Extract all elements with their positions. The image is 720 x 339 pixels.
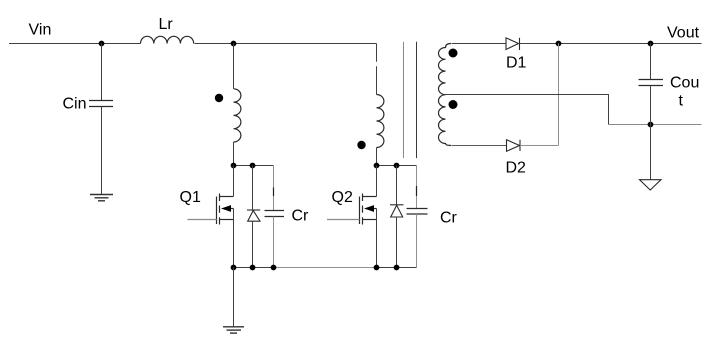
phase dot secondary top	[449, 49, 458, 58]
wire Q2 drain vertical	[376, 166, 378, 197]
arrow of Q2 body	[364, 205, 374, 212]
transistor Q2 (MOSFET)	[360, 194, 377, 225]
node junction Vin/Cin	[99, 41, 105, 47]
wire bottom rail	[234, 267, 274, 269]
node junction Cout bottom	[648, 122, 654, 128]
phase dot secondary bottom half	[449, 100, 458, 109]
transformer core line left	[403, 42, 405, 158]
node junction body diode 2 top	[394, 163, 400, 169]
body stub	[227, 208, 234, 210]
phase dot primary P2	[357, 141, 365, 149]
transistor Q1 (MOSFET)	[217, 194, 234, 225]
svg-text:Vout: Vout	[667, 25, 700, 42]
svg-text:Cr: Cr	[440, 210, 458, 227]
source stub	[220, 219, 234, 221]
transformer core line right	[416, 42, 418, 158]
capacitor Cout	[650, 44, 652, 80]
wire secondary bottom to D2	[452, 145, 507, 147]
wire primary P1 bottom	[233, 142, 235, 166]
transformer primary winding P1	[234, 89, 241, 142]
phase dot primary P1	[215, 94, 223, 102]
wire Q1 cell top rail	[234, 165, 274, 167]
svg-text:Q2: Q2	[332, 189, 353, 206]
svg-text:t: t	[679, 93, 684, 110]
wire D1/D2 junction down to D2 (gray)	[558, 44, 560, 146]
diode body D-Q2	[396, 166, 398, 205]
node junction Q2 drain	[374, 163, 380, 169]
wire output bottom rail	[609, 124, 702, 126]
wire Q1 source vertical	[233, 209, 235, 268]
diode D2	[507, 140, 521, 152]
wire Vin input top rail	[9, 43, 377, 45]
wire ground stem Q1	[233, 268, 235, 327]
node junction body diode 1 top	[250, 163, 256, 169]
gate bar	[359, 197, 361, 225]
ground earth below Q1	[223, 327, 244, 333]
node junction Q1 drain	[231, 163, 237, 169]
wire Cin top	[101, 44, 103, 101]
ground triangle output	[640, 180, 662, 190]
node junction top-left of transformer	[231, 41, 237, 47]
diode D1	[506, 38, 520, 50]
capacitor Cin	[89, 101, 113, 107]
wire center tap	[446, 95, 609, 125]
transformer secondary winding (center tapped)	[438, 44, 451, 146]
capacitor Cr1	[273, 166, 275, 211]
channel dashes	[219, 194, 221, 225]
wire Cin bottom	[101, 107, 103, 195]
svg-text:Cr: Cr	[292, 208, 310, 225]
wire Q2 gate lead	[327, 219, 360, 221]
transformer primary winding P2	[377, 95, 384, 148]
wire Q1 drain vertical	[233, 166, 235, 197]
source stub	[363, 219, 377, 221]
inductor Lr	[141, 36, 194, 43]
node junction bottom Q1 source	[231, 265, 237, 271]
node junction D1/D2 output	[556, 41, 562, 47]
node junction bottom diode1	[250, 265, 256, 271]
capacitor Cr2	[416, 166, 418, 209]
body stub	[370, 208, 377, 210]
node junction bottom Q2 source	[374, 265, 380, 271]
svg-text:Q1: Q1	[180, 189, 201, 206]
wire Q2 source vertical	[376, 209, 378, 268]
ground earth below Cin	[90, 195, 113, 201]
svg-text:Cin: Cin	[63, 96, 87, 113]
svg-text:D2: D2	[506, 160, 527, 177]
drain stub	[363, 196, 377, 198]
svg-text:Lr: Lr	[159, 16, 174, 33]
drain stub	[220, 196, 234, 198]
wire Cout bottom	[650, 86, 652, 180]
svg-text:Cou: Cou	[670, 75, 699, 92]
diode body D-Q1	[252, 166, 254, 211]
wire Q1 gate lead	[188, 219, 217, 221]
node junction Cout top	[648, 41, 654, 47]
svg-text:D1: D1	[506, 55, 527, 72]
wire D1 cathode to Vout	[520, 43, 702, 45]
wire top rail corner down to primary winding 2 (with gap)	[376, 44, 378, 62]
channel dashes	[362, 194, 364, 225]
arrow of Q1 body	[221, 205, 231, 212]
wire secondary top to D1	[452, 43, 507, 45]
node junction bottom diode2	[394, 265, 400, 271]
wire Q2 cell top rail	[377, 165, 417, 167]
wire D2 cathode to junction (gray)	[520, 145, 559, 147]
node junction bottom Cr1	[271, 265, 277, 271]
wire primary P2 bottom	[376, 148, 378, 166]
svg-text:Vin: Vin	[29, 22, 52, 39]
wire down to primary winding 1	[233, 44, 235, 89]
gate bar	[216, 197, 218, 225]
